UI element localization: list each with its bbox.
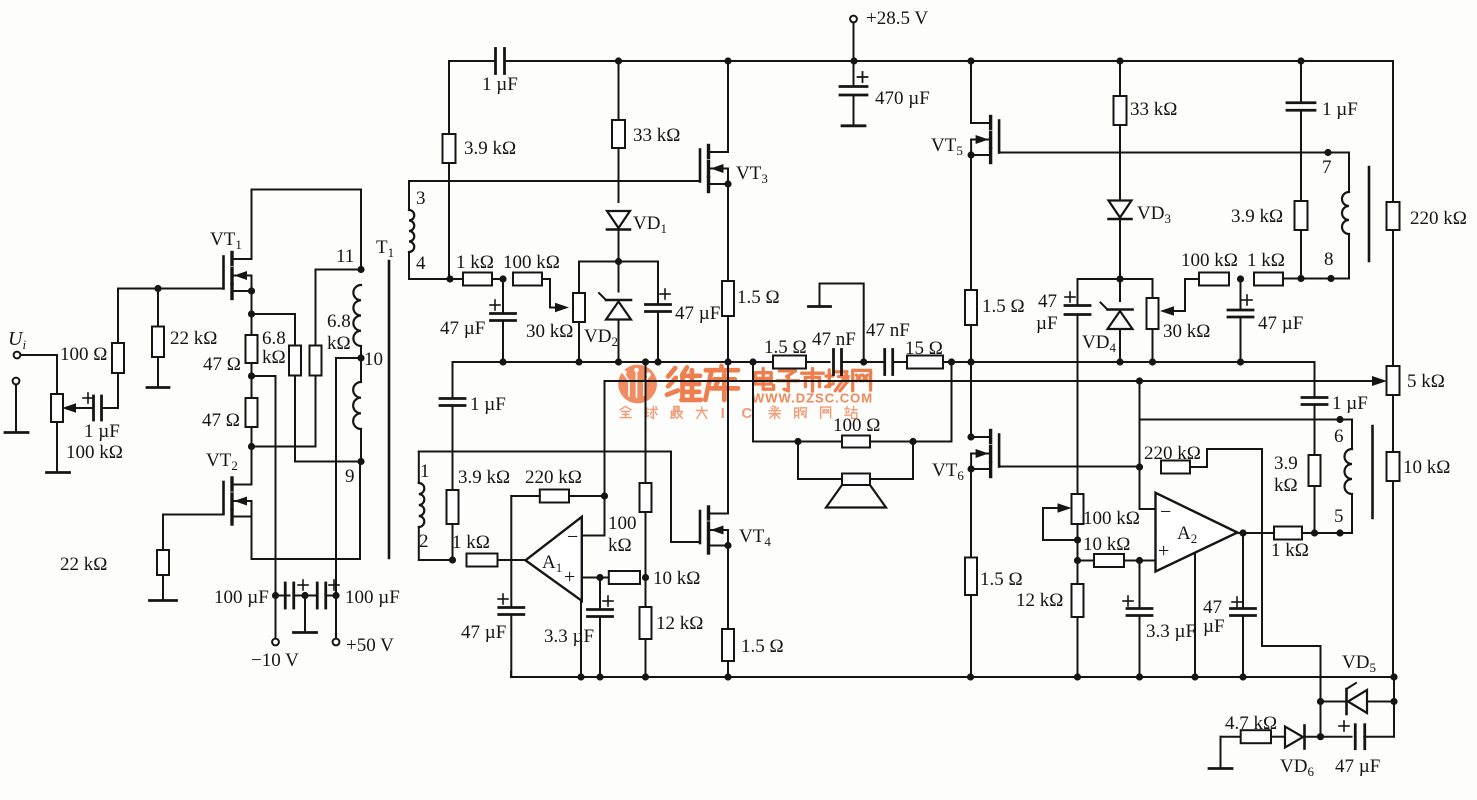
svg-text:1.5 Ω: 1.5 Ω	[980, 569, 1023, 590]
svg-text:7: 7	[1322, 157, 1332, 178]
svg-text:220 kΩ: 220 kΩ	[1144, 443, 1201, 464]
svg-text:100 kΩ: 100 kΩ	[1181, 250, 1238, 271]
svg-text:1.5 Ω: 1.5 Ω	[741, 636, 784, 657]
svg-text:1 kΩ: 1 kΩ	[456, 252, 494, 273]
svg-text:47 µF: 47 µF	[675, 303, 720, 324]
svg-text:1: 1	[420, 461, 430, 482]
svg-text:kΩ: kΩ	[608, 535, 632, 556]
svg-text:5 kΩ: 5 kΩ	[1407, 371, 1445, 392]
svg-text:+28.5 V: +28.5 V	[866, 8, 928, 29]
svg-text:47 µF: 47 µF	[1335, 756, 1380, 777]
svg-text:3: 3	[416, 188, 426, 209]
svg-text:1 kΩ: 1 kΩ	[1271, 540, 1309, 561]
svg-text:220 kΩ: 220 kΩ	[525, 467, 582, 488]
svg-text:3.9 kΩ: 3.9 kΩ	[458, 467, 510, 488]
svg-text:6: 6	[1334, 426, 1344, 447]
svg-text:100 µF: 100 µF	[345, 587, 400, 608]
svg-text:100 kΩ: 100 kΩ	[503, 252, 560, 273]
svg-text:10: 10	[364, 349, 383, 370]
svg-text:kΩ: kΩ	[327, 333, 351, 354]
svg-text:+: +	[564, 566, 575, 588]
svg-text:WWW.DZSC.COM: WWW.DZSC.COM	[752, 390, 873, 405]
svg-text:4: 4	[416, 253, 426, 274]
svg-text:1 kΩ: 1 kΩ	[452, 532, 490, 553]
svg-text:C: C	[741, 405, 752, 422]
svg-text:12 kΩ: 12 kΩ	[1016, 590, 1063, 611]
svg-text:µF: µF	[1203, 616, 1225, 637]
svg-text:1.5 Ω: 1.5 Ω	[982, 296, 1025, 317]
svg-text:47 nF: 47 nF	[866, 320, 910, 341]
svg-text:100 Ω: 100 Ω	[833, 415, 880, 436]
svg-text:8: 8	[1324, 249, 1334, 270]
svg-text:15 Ω: 15 Ω	[905, 338, 943, 359]
svg-text:1.5 Ω: 1.5 Ω	[737, 287, 780, 308]
svg-text:10 kΩ: 10 kΩ	[1083, 534, 1130, 555]
svg-text:470 µF: 470 µF	[875, 88, 930, 109]
svg-text:+50 V: +50 V	[346, 635, 394, 656]
svg-text:100 kΩ: 100 kΩ	[1083, 508, 1140, 529]
svg-text:10 kΩ: 10 kΩ	[1403, 457, 1450, 478]
svg-text:−: −	[1160, 501, 1171, 523]
svg-text:5: 5	[1334, 506, 1344, 527]
svg-text:11: 11	[336, 246, 354, 267]
svg-text:µF: µF	[1036, 313, 1058, 334]
svg-text:1 µF: 1 µF	[84, 421, 120, 442]
svg-text:22 kΩ: 22 kΩ	[60, 554, 107, 575]
svg-text:220 kΩ: 220 kΩ	[1410, 208, 1467, 229]
svg-text:1 µF: 1 µF	[470, 394, 506, 415]
svg-text:47: 47	[1038, 291, 1057, 312]
svg-text:33 kΩ: 33 kΩ	[633, 125, 680, 146]
svg-text:2: 2	[419, 531, 429, 552]
svg-text:1 kΩ: 1 kΩ	[1247, 250, 1285, 271]
svg-text:47 Ω: 47 Ω	[203, 354, 241, 375]
svg-text:12 kΩ: 12 kΩ	[656, 613, 703, 634]
svg-text:22 kΩ: 22 kΩ	[170, 328, 217, 349]
svg-text:I: I	[721, 405, 725, 422]
svg-text:kΩ: kΩ	[262, 347, 286, 368]
svg-text:47 nF: 47 nF	[812, 329, 856, 350]
svg-text:6.8: 6.8	[262, 328, 286, 349]
svg-text:47 µF: 47 µF	[461, 622, 506, 643]
svg-text:3.9 kΩ: 3.9 kΩ	[464, 138, 516, 159]
svg-text:30 kΩ: 30 kΩ	[1163, 321, 1210, 342]
svg-text:3.3 µF: 3.3 µF	[544, 626, 594, 647]
svg-text:1 µF: 1 µF	[482, 74, 518, 95]
svg-text:100 µF: 100 µF	[214, 587, 269, 608]
svg-text:−: −	[567, 526, 578, 548]
svg-text:1.5 Ω: 1.5 Ω	[764, 337, 807, 358]
svg-text:47: 47	[1203, 597, 1222, 618]
svg-text:9: 9	[345, 466, 355, 487]
svg-text:1 µF: 1 µF	[1332, 393, 1368, 414]
svg-text:100 kΩ: 100 kΩ	[66, 442, 123, 463]
svg-text:100: 100	[608, 513, 637, 534]
svg-text:1 µF: 1 µF	[1322, 99, 1358, 120]
svg-text:3.9: 3.9	[1274, 453, 1298, 474]
svg-text:33 kΩ: 33 kΩ	[1130, 99, 1177, 120]
svg-text:3.3 µF: 3.3 µF	[1146, 621, 1196, 642]
svg-text:100 Ω: 100 Ω	[60, 344, 107, 365]
svg-text:47 µF: 47 µF	[1258, 313, 1303, 334]
svg-text:3.9 kΩ: 3.9 kΩ	[1231, 206, 1283, 227]
svg-text:4.7 kΩ: 4.7 kΩ	[1225, 713, 1277, 734]
svg-text:10 kΩ: 10 kΩ	[653, 568, 700, 589]
svg-text:30 kΩ: 30 kΩ	[526, 321, 573, 342]
svg-text:+: +	[1158, 540, 1169, 562]
svg-text:kΩ: kΩ	[1274, 475, 1298, 496]
svg-text:47 Ω: 47 Ω	[202, 410, 240, 431]
svg-text:47 µF: 47 µF	[440, 318, 485, 339]
svg-text:6.8: 6.8	[327, 311, 351, 332]
svg-text:−10 V: −10 V	[251, 650, 299, 671]
